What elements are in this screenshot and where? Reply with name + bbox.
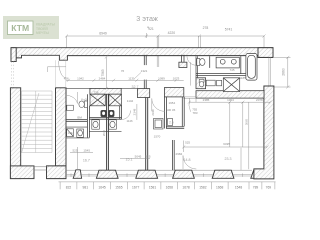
svg-text:789: 789 xyxy=(253,186,259,190)
bottom windows glazing xyxy=(66,173,252,177)
svg-text:525: 525 xyxy=(185,141,190,145)
svg-text:783: 783 xyxy=(192,111,197,115)
svg-text:525: 525 xyxy=(145,155,150,159)
toilet top right area xyxy=(197,59,205,66)
svg-text:736: 736 xyxy=(93,91,98,95)
label 1321 with leader xyxy=(121,69,148,79)
door arc staircase top xyxy=(48,60,67,88)
svg-text:2484: 2484 xyxy=(99,76,106,80)
right wall upper corner xyxy=(258,48,273,58)
toilet right mid xyxy=(199,79,204,87)
svg-text:1668: 1668 xyxy=(216,186,224,190)
svg-text:1954: 1954 xyxy=(168,101,175,105)
svg-text:2040: 2040 xyxy=(102,129,106,136)
horizontal partition y127 unit3 xyxy=(166,127,184,129)
small sink near stair wall xyxy=(67,105,74,110)
shower tray bath right xyxy=(206,80,222,86)
vertical partition x126 xyxy=(120,106,122,119)
svg-text:6495: 6495 xyxy=(223,142,230,146)
svg-text:15.1: 15.1 xyxy=(126,158,133,162)
svg-text:1099: 1099 xyxy=(158,76,165,80)
bathtub xyxy=(246,54,257,81)
unit3 small fixture xyxy=(168,119,173,126)
middle band wall segment C xyxy=(164,88,183,97)
stair treads xyxy=(22,91,53,153)
bottom dimension numbers xyxy=(66,186,272,190)
svg-text:14.8: 14.8 xyxy=(184,158,191,162)
horizontal partition y120 center xyxy=(89,117,121,119)
svg-text:1548: 1548 xyxy=(235,186,243,190)
svg-text:1131: 1131 xyxy=(128,76,135,80)
vertical partition center pair xyxy=(107,94,109,170)
svg-text:3065: 3065 xyxy=(244,118,248,125)
door arc bathroom right unit xyxy=(122,111,131,120)
bathroom west partition xyxy=(196,56,198,78)
svg-text:278: 278 xyxy=(203,26,209,30)
interior dim row y80 xyxy=(66,79,184,82)
svg-text:1565: 1565 xyxy=(115,186,123,190)
svg-text:2385: 2385 xyxy=(203,98,210,102)
toilet lower left xyxy=(77,129,84,137)
bathroom top right: counter with sinks xyxy=(216,57,239,68)
corridor threshold lines xyxy=(183,97,196,98)
svg-text:1545: 1545 xyxy=(83,148,90,152)
svg-text:100 36: 100 36 xyxy=(166,108,176,112)
right wall window xyxy=(269,57,271,86)
partition stub x145 xyxy=(144,55,146,89)
vertical partition x172 lower xyxy=(173,140,175,170)
svg-text:2.6: 2.6 xyxy=(169,121,174,125)
svg-text:1042: 1042 xyxy=(77,76,84,80)
door arc into bath corridor xyxy=(187,56,196,85)
svg-text:1146: 1146 xyxy=(126,119,132,123)
interior vertical dim 7563 xyxy=(105,56,108,90)
svg-text:6949: 6949 xyxy=(99,31,107,35)
svg-text:1185: 1185 xyxy=(239,76,246,80)
title 3 этаж xyxy=(136,14,158,29)
bottom window piers xyxy=(73,169,264,178)
svg-text:2984: 2984 xyxy=(176,152,183,156)
toilet pair unit1 xyxy=(101,110,114,116)
interior vertical dim 2348 xyxy=(136,104,138,120)
svg-text:755: 755 xyxy=(192,107,197,111)
washing machine left xyxy=(67,129,74,137)
svg-text:КТМ: КТМ xyxy=(11,23,29,33)
svg-text:1645: 1645 xyxy=(98,186,106,190)
svg-text:16.7: 16.7 xyxy=(83,158,90,162)
door arc unit2 entry xyxy=(152,98,165,111)
corridor top wall thin lines xyxy=(66,87,137,89)
right dimension line 2660 xyxy=(274,56,291,89)
vertical partition unit2 xyxy=(146,98,148,171)
top dimension line xyxy=(65,33,266,67)
svg-text:76: 76 xyxy=(121,69,125,73)
svg-text:769: 769 xyxy=(266,186,272,190)
duct shaft X middle xyxy=(109,94,122,106)
svg-text:5045: 5045 xyxy=(135,155,142,159)
door arc unit1 entry xyxy=(66,92,78,104)
svg-text:3 этаж: 3 этаж xyxy=(136,14,158,23)
svg-text:1073: 1073 xyxy=(173,76,180,80)
left wall opening (dashed) xyxy=(11,62,13,88)
svg-text:5741: 5741 xyxy=(225,28,233,32)
svg-text:32.7: 32.7 xyxy=(132,85,139,89)
partition bath vertical xyxy=(210,56,241,73)
svg-text:2348: 2348 xyxy=(151,109,155,116)
svg-text:МЕЧТЫ: МЕЧТЫ xyxy=(36,31,50,35)
vertical partition unit1 xyxy=(87,94,89,137)
svg-text:921: 921 xyxy=(148,27,154,31)
svg-text:745: 745 xyxy=(229,68,234,72)
svg-text:1321: 1321 xyxy=(141,69,148,73)
svg-text:2660: 2660 xyxy=(281,68,285,76)
svg-text:1678: 1678 xyxy=(182,186,190,190)
sink unit1 right xyxy=(109,120,117,129)
upper partition right section xyxy=(196,74,246,76)
window sill inner line xyxy=(66,169,252,171)
middle band wall segment A xyxy=(90,88,121,94)
sink unit1 left xyxy=(92,120,100,129)
duct shaft X left xyxy=(90,94,105,106)
staircase entry threshold xyxy=(34,167,47,170)
svg-text:456: 456 xyxy=(64,76,69,80)
svg-text:1581: 1581 xyxy=(149,186,157,190)
middle band wall segment B xyxy=(137,89,149,98)
svg-text:1658: 1658 xyxy=(166,186,174,190)
svg-text:2348: 2348 xyxy=(132,108,136,115)
unit3 shower tray xyxy=(154,119,164,130)
svg-text:525: 525 xyxy=(72,148,77,152)
svg-text:23.3: 23.3 xyxy=(225,157,232,161)
svg-text:981: 981 xyxy=(83,186,89,190)
svg-text:1142: 1142 xyxy=(127,99,134,103)
left upper wall block xyxy=(11,48,16,62)
middle band wall segment D right xyxy=(196,91,264,98)
bathroom hatched block right xyxy=(196,78,206,89)
toilet upper left unit xyxy=(79,101,88,108)
svg-text:1004: 1004 xyxy=(227,98,234,102)
duct shaft X right xyxy=(223,78,239,92)
top dimension labels xyxy=(99,26,232,35)
WC niche boundary lines xyxy=(66,127,122,138)
staircase bottom wall left part xyxy=(10,166,34,179)
svg-text:4220: 4220 xyxy=(168,31,176,35)
vertical partition x182 xyxy=(182,97,184,126)
stair direction line xyxy=(22,93,40,153)
horizontal partition y120 left xyxy=(66,120,87,122)
svg-text:1582: 1582 xyxy=(199,186,207,190)
lower rooms dim row xyxy=(70,141,269,171)
svg-text:ВМ: ВМ xyxy=(77,115,82,119)
right wall lower xyxy=(254,86,274,179)
top wall band xyxy=(11,48,273,61)
door arc room right xyxy=(183,156,196,170)
bottom dimension table xyxy=(59,182,276,189)
staircase left wall xyxy=(10,88,20,179)
dim row under band D xyxy=(188,98,272,169)
svg-text:1677: 1677 xyxy=(132,186,140,190)
svg-text:822: 822 xyxy=(66,186,72,190)
svg-text:2078: 2078 xyxy=(256,98,263,102)
staircase bottom wall right part xyxy=(47,166,67,179)
svg-text:1042: 1042 xyxy=(68,131,75,135)
partition stub x183 xyxy=(179,55,187,68)
logo KTM xyxy=(3,16,59,39)
vertical partition x165 xyxy=(164,97,166,129)
svg-text:КлЗ: КлЗ xyxy=(81,98,86,102)
staircase right wall xyxy=(56,88,67,166)
svg-text:1570: 1570 xyxy=(154,135,161,139)
